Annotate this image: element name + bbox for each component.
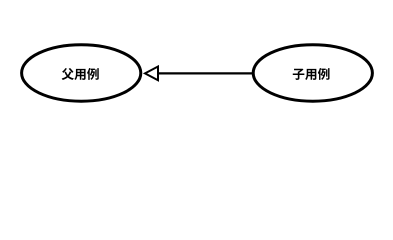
wire generalization shaft — [158, 72, 254, 74]
label "父用例" — [62, 68, 99, 80]
generalization hollow triangle arrowhead — [145, 67, 158, 81]
use case ellipse 父用例 (parent use case) — [22, 45, 141, 102]
use case ellipse 子用例 (child use case) — [253, 45, 372, 102]
label "子用例" — [293, 68, 330, 80]
